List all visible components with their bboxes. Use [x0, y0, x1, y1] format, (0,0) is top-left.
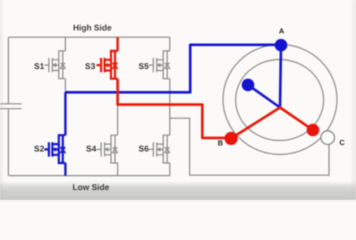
svg-text:S6: S6 [139, 143, 150, 153]
svg-text:S4: S4 [86, 143, 97, 153]
svg-text:C: C [339, 138, 345, 147]
svg-text:A: A [279, 26, 285, 35]
svg-text:S3: S3 [85, 61, 96, 71]
svg-text:Low Side: Low Side [73, 182, 110, 192]
svg-text:S1: S1 [34, 61, 45, 71]
svg-text:B: B [218, 139, 223, 148]
svg-text:S2: S2 [34, 143, 45, 153]
svg-text:S5: S5 [139, 61, 150, 71]
svg-text:High Side: High Side [73, 22, 112, 32]
